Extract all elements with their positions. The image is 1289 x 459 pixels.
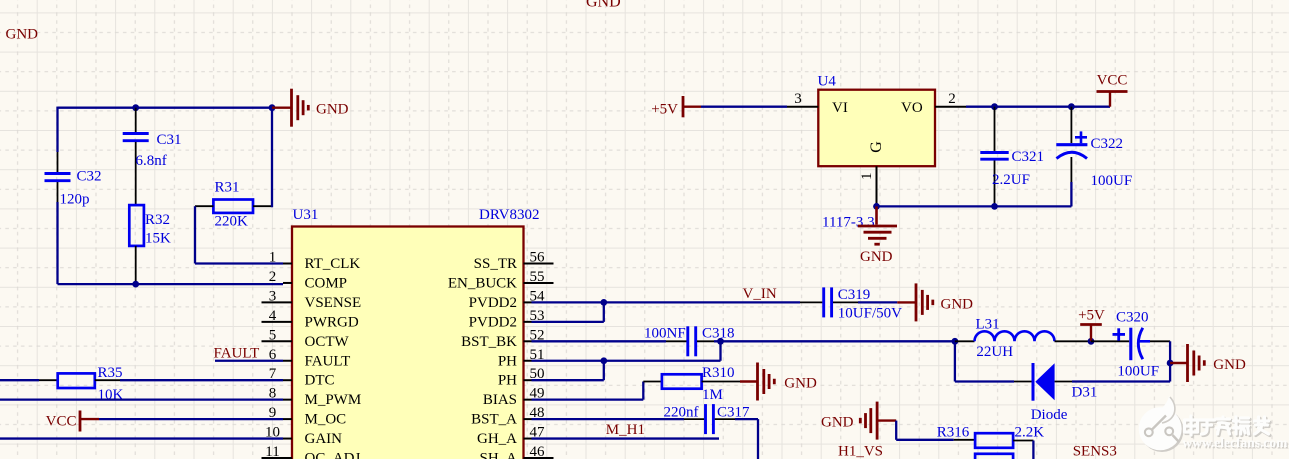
svg-text:R32: R32 [145,212,170,228]
svg-text:11: 11 [265,444,279,459]
svg-text:GND: GND [586,0,621,11]
svg-text:DRV8302: DRV8302 [479,207,539,223]
svg-text:C321: C321 [1012,149,1045,165]
ground GND (right of C320) [1170,344,1246,382]
pin 46 (SH_A) [479,444,553,459]
pin 54 (PVDD2) [469,288,545,311]
capacitor C317 220nf [664,404,751,434]
svg-text:R310: R310 [702,365,735,381]
svg-text:SH_A: SH_A [479,451,517,459]
wire bottom of RC network to pin 2 [58,281,284,288]
capacitor C322 100UF (polarized) [1056,107,1132,207]
pin 9 (M_OC) [269,405,346,428]
pin 10 (GAIN) [265,425,342,448]
resistor R35 10K [0,365,124,403]
svg-text:1: 1 [269,250,277,266]
svg-text:VCC: VCC [1097,72,1128,88]
svg-text:OC_ADJ: OC_ADJ [305,451,361,459]
wire R31 right to top rail [271,108,273,208]
svg-text:1M: 1M [702,387,723,403]
svg-text:U31: U31 [293,207,319,223]
svg-text:Diode: Diode [1031,407,1068,423]
ground GND (top, sideways) [272,89,349,127]
svg-text:55: 55 [530,269,545,285]
IC U31 DRV8302 body [292,207,540,459]
svg-text:RT_CLK: RT_CLK [305,256,361,272]
svg-text:+5V: +5V [651,101,678,117]
capacitor C320 100UF (polarized) [1091,309,1170,379]
svg-text:GND: GND [1213,357,1246,373]
wire +5V to U4 pin 3 [701,106,787,108]
svg-text:2.2UF: 2.2UF [992,172,1030,188]
svg-text:GND: GND [316,102,349,118]
svg-text:www.elecfans.com: www.elecfans.com [1182,435,1288,450]
capacitor C319 10UF/50V [800,287,902,322]
wire PH net: pins 51/50 join and run to C318/L31 [532,338,955,380]
pin 8 (M_PWM) [269,386,361,409]
power port VCC (left) [46,411,99,432]
svg-text:GND: GND [784,376,817,392]
svg-text:15K: 15K [145,231,171,247]
svg-text:GND: GND [860,249,893,265]
svg-text:56: 56 [530,250,546,266]
power port VCC (top right) [1097,72,1128,106]
svg-text:EN_BUCK: EN_BUCK [448,275,517,291]
svg-text:L31: L31 [976,317,1000,333]
svg-text:120p: 120p [60,191,90,207]
pin 1 (RT_CLK) [269,250,361,273]
ground GND (H1_VS, mirrored) [821,402,896,440]
wire V_IN [604,301,800,303]
svg-text:C31: C31 [157,132,182,148]
svg-text:U4: U4 [818,74,837,90]
svg-text:PWRGD: PWRGD [305,314,359,330]
resistor R310 1M [643,365,740,403]
svg-text:2: 2 [948,91,956,107]
svg-text:H1_VS: H1_VS [838,443,883,459]
wire R316 right down [1032,441,1034,459]
pin 2 (COMP) [269,269,347,292]
svg-text:1: 1 [859,172,875,180]
pin 3 (VSENSE) [262,288,362,311]
wire BST_BK pin 52 to C318 [532,340,667,342]
pin 49 (BIAS) [483,386,545,409]
capacitor C321 2.2UF [980,107,1044,207]
wire R31 left to pin 1 [195,206,283,263]
wire C320 right down to diode row [1167,341,1174,381]
svg-text:BST_BK: BST_BK [461,334,517,350]
ground GND (below U4, bar style) [858,206,897,264]
svg-text:C32: C32 [77,169,102,185]
svg-text:VI: VI [832,100,848,116]
capacitor C31 6.8nf [123,108,182,205]
svg-text:+5V: +5V [1078,308,1105,324]
wire pin 8 (M_PWM) [0,398,283,400]
wire pin 6 (FAULT) [215,360,283,362]
svg-text:GND: GND [6,27,39,43]
pin 7 (DTC) [269,366,335,389]
svg-text:5: 5 [269,327,277,343]
svg-text:PH: PH [498,353,517,369]
power port +5V (right) [1078,308,1105,345]
svg-text:SENS3: SENS3 [1073,444,1117,459]
pin 6 (FAULT) [269,347,351,370]
wire BIAS pin 49 to R310 [532,382,644,400]
diode D31 [1014,363,1097,423]
svg-text:VO: VO [901,100,923,116]
svg-text:M_H1: M_H1 [606,422,645,438]
svg-text:DTC: DTC [305,373,335,389]
wire diode to C320 node [1072,380,1170,382]
U4 pin 3 [787,91,818,107]
capacitor C32 120p [45,169,102,208]
resistor R31 220K [195,180,272,230]
svg-text:GAIN: GAIN [305,431,343,447]
svg-text:VCC: VCC [46,413,77,429]
wire ground to R316 [896,421,954,440]
pin 47 (GH_A) [477,425,545,448]
pin 56 (SS_TR) [474,250,554,273]
wire U4 ground rail [873,182,1071,210]
IC U4 1117-3.3 body [818,74,936,231]
svg-text:220K: 220K [215,214,249,230]
pin 48 (BST_A) [471,405,544,428]
svg-text:PVDD2: PVDD2 [469,295,517,311]
svg-text:3: 3 [794,91,802,107]
svg-text:46: 46 [530,444,546,459]
wire PH node down to diode row [952,338,1015,382]
capacitor C318 100NF [644,325,735,356]
wire VCC to pin 9 [99,418,283,420]
svg-text:D31: D31 [1072,385,1098,401]
svg-text:100NF: 100NF [644,325,686,341]
svg-text:BST_A: BST_A [471,412,517,428]
pin 55 (EN_BUCK) [448,269,554,292]
svg-text:GND: GND [821,415,854,431]
svg-text:R31: R31 [215,180,240,196]
U4 pin 2 [935,91,966,107]
pin 51 (PH) [498,347,545,370]
U4 pin 1 [859,166,876,203]
wire R35 to pin 7 [120,379,283,381]
svg-text:100UF: 100UF [1091,173,1133,189]
svg-text:OCTW: OCTW [305,334,350,350]
svg-text:GH_A: GH_A [477,431,517,447]
resistor R32 15K [129,205,171,284]
svg-text:10UF/50V: 10UF/50V [838,305,902,321]
svg-text:V_IN: V_IN [743,286,777,302]
wire left vertical through C32 [56,107,58,285]
svg-text:PVDD2: PVDD2 [469,314,517,330]
ground GND (right of R310) [740,363,817,401]
resistor R316 2.2K [937,424,1044,448]
svg-text:6.8nf: 6.8nf [136,153,167,169]
svg-text:22UH: 22UH [976,344,1013,360]
pin 4 (PWRGD) [262,308,359,331]
svg-text:2.2K: 2.2K [1015,424,1045,440]
ground GND (right of C319) [897,283,973,321]
svg-text:COMP: COMP [305,275,348,291]
svg-text:FAULT: FAULT [214,346,260,362]
resistor (partial, below R316) [958,454,1013,459]
wire BST_A pin 48 to C317 [532,418,685,420]
svg-text:C322: C322 [1091,136,1124,152]
pin 11 (OC_ADJ) [262,444,361,459]
pin 50 (PH) [498,366,545,389]
svg-text:GND: GND [941,296,974,312]
svg-text:G: G [868,141,885,153]
svg-text:100UF: 100UF [1117,363,1159,379]
watermark text (stylized glyphs) [1185,416,1270,436]
wire C319 to ground [858,301,897,303]
svg-text:R316: R316 [937,424,970,440]
svg-text:2: 2 [269,269,277,285]
wire pin 10 (GAIN) [0,437,283,439]
svg-text:M_PWM: M_PWM [305,392,362,408]
wire C317 down [735,419,758,459]
svg-text:1117-3.3: 1117-3.3 [822,214,875,230]
inductor L31 22UH [955,317,1091,361]
svg-text:C319: C319 [838,287,871,303]
pin 5 (OCTW) [262,327,350,350]
watermark logo elecfans (embossed white) [1139,396,1184,452]
svg-text:R35: R35 [98,365,123,381]
svg-text:BIAS: BIAS [483,392,517,408]
svg-text:PH: PH [498,373,517,389]
wire top horizontal of RC network [58,104,276,111]
wire GH_A pin 47 [532,437,720,439]
power port +5V (left of U4) [651,96,701,117]
wire PVDD2 pins 54/53 join [532,299,608,322]
svg-text:4: 4 [269,308,277,324]
pin 52 (BST_BK) [461,327,544,350]
wire U4 output rail [966,103,1110,110]
svg-text:3: 3 [269,288,277,304]
svg-text:VSENSE: VSENSE [305,295,362,311]
svg-text:220nf: 220nf [664,405,699,421]
svg-text:SS_TR: SS_TR [474,256,517,272]
svg-text:FAULT: FAULT [305,353,351,369]
svg-text:C320: C320 [1116,309,1149,325]
pin 53 (PVDD2) [469,308,545,331]
svg-text:M_OC: M_OC [305,412,347,428]
